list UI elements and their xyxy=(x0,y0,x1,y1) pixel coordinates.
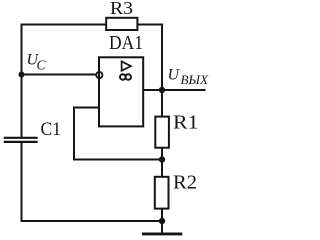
svg-text:R3: R3 xyxy=(110,0,133,18)
svg-text:C: C xyxy=(37,58,47,73)
svg-text:U: U xyxy=(168,67,181,84)
svg-text:ВЫХ: ВЫХ xyxy=(181,72,210,87)
svg-text:C1: C1 xyxy=(41,119,62,140)
svg-text:R1: R1 xyxy=(173,113,199,134)
svg-text:R2: R2 xyxy=(173,172,197,194)
svg-text:DA1: DA1 xyxy=(109,32,143,54)
